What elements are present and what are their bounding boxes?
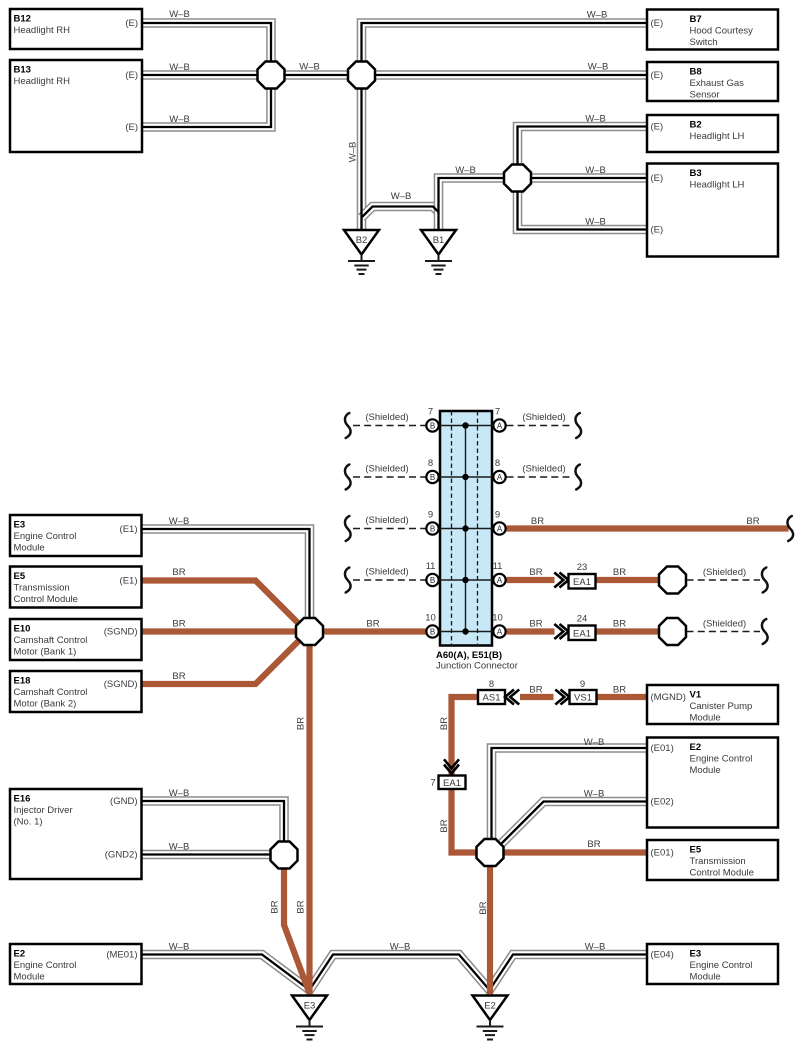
svg-text:Module: Module [14, 542, 45, 553]
svg-text:A60(A), E51(B): A60(A), E51(B) [436, 650, 502, 661]
svg-text:(No. 1): (No. 1) [14, 816, 43, 827]
svg-text:(E): (E) [651, 173, 664, 184]
wire splice J5 to ground E3 (BR) [284, 855, 309, 992]
svg-text:(E1): (E1) [120, 524, 138, 535]
wire splice J4 to E5 (E01) (BR) [490, 849, 647, 855]
svg-text:Headlight LH: Headlight LH [690, 179, 745, 190]
svg-text:W–B: W–B [169, 62, 190, 73]
wire E16 (GND2) to splice J5 (W-B) [142, 853, 285, 855]
wire shielded A7 row (shielded dashed) [507, 425, 574, 427]
svg-text:B8: B8 [690, 67, 702, 78]
junction connector pin B11 [426, 561, 439, 586]
wire pin A10 to EA1-24 (BR) [507, 628, 555, 634]
wire AS1 to VS1 (BR) [520, 694, 554, 700]
AS1 connector arrows [505, 690, 519, 705]
svg-text:BR: BR [439, 819, 450, 832]
svg-text:Canister Pump: Canister Pump [690, 701, 753, 712]
connector EA1 pin 24 [569, 626, 596, 641]
svg-text:Module: Module [690, 712, 721, 723]
svg-text:W–B: W–B [585, 942, 606, 953]
junction connector pin A11 [493, 561, 506, 586]
junction connector row 8 internal wire [434, 476, 498, 478]
wire splice S2 to B7 (E) (W-B) [362, 23, 648, 75]
svg-text:(E02): (E02) [651, 796, 674, 807]
junction connector pin B10 [425, 613, 438, 638]
wire splice S2 to B8 (E) (W-B) [362, 74, 648, 76]
svg-text:BR: BR [172, 619, 185, 630]
svg-text:VS1: VS1 [574, 693, 592, 704]
ground E2 [473, 996, 508, 1040]
svg-text:W–B: W–B [299, 62, 320, 73]
wire AS1 corner down (BR) [452, 697, 479, 776]
wire splice J1 to junction connector pin B10 (BR) [310, 628, 433, 634]
shield mark row9 right shield break mark [787, 516, 793, 541]
wire shielded B11 row (shielded dashed) [353, 579, 426, 581]
wire VS1 to V1 (MGND) (BR) [596, 694, 647, 700]
junction connector row 10 internal wire [434, 631, 498, 633]
svg-text:Camshaft Control: Camshaft Control [14, 687, 88, 698]
shield mark row11 right shield break mark [762, 568, 768, 593]
svg-text:(MGND): (MGND) [651, 692, 686, 703]
svg-text:W–B: W–B [169, 9, 190, 20]
svg-text:Injector Driver: Injector Driver [14, 805, 73, 816]
connector VS1 pin 9 [570, 690, 597, 704]
wire EA1-24 to splice J3 (BR) [596, 628, 673, 634]
wire splice S3 to B2 (E) (W-B) [518, 127, 648, 179]
wire splice S2 to ground B2 (W-B) [360, 75, 362, 230]
wire splice J4 to E2 (E01) (W-B) [492, 748, 648, 853]
svg-text:E3: E3 [14, 520, 26, 531]
svg-text:8: 8 [428, 458, 433, 469]
shield mark row11 left shield break mark [345, 568, 351, 593]
splice J2 [659, 567, 686, 594]
svg-text:EA1: EA1 [573, 577, 591, 588]
junction connector pin B8 [426, 458, 438, 483]
component B13 Headlight RH [10, 60, 142, 152]
svg-text:(Shielded): (Shielded) [522, 412, 565, 423]
wire E2 (ME01) to ground E3 to ground E2 to E3 (E04) (W-B) [142, 955, 648, 991]
svg-text:BR: BR [172, 567, 185, 578]
svg-text:7: 7 [428, 407, 433, 418]
svg-text:AS1: AS1 [483, 693, 501, 704]
svg-text:(Shielded): (Shielded) [703, 619, 746, 630]
svg-text:BR: BR [587, 839, 600, 850]
svg-text:E2: E2 [690, 742, 702, 753]
junction connector row 9 internal wire [434, 528, 498, 530]
svg-text:BR: BR [478, 901, 489, 914]
junction connector pin A10 [492, 613, 505, 638]
svg-text:W–B: W–B [588, 62, 609, 73]
svg-text:B: B [430, 421, 435, 430]
wire shielded A8 row (shielded dashed) [507, 476, 574, 478]
VS1 connector arrows [555, 690, 569, 705]
svg-text:8: 8 [495, 458, 500, 469]
svg-text:B12: B12 [14, 14, 31, 25]
junction connector row 7 internal wire [434, 425, 498, 427]
svg-text:Module: Module [690, 971, 721, 982]
shield mark row8 right shield break mark [575, 465, 581, 490]
wire splice J4 to ground E2 (BR) [487, 853, 493, 995]
junction connector A60(A), E51(B) body [440, 411, 492, 646]
svg-text:(E): (E) [651, 70, 664, 81]
svg-text:Headlight RH: Headlight RH [14, 76, 71, 87]
component B2 Headlight LH [647, 115, 778, 152]
svg-text:W–B: W–B [348, 142, 359, 163]
svg-text:B: B [430, 627, 435, 636]
shield mark row7 right shield break mark [575, 413, 581, 438]
svg-text:Sensor: Sensor [690, 89, 720, 100]
svg-text:(E1): (E1) [120, 575, 138, 586]
svg-text:BR: BR [531, 516, 544, 527]
svg-text:E16: E16 [14, 794, 31, 805]
svg-text:(E01): (E01) [651, 847, 674, 858]
svg-text:W–B: W–B [585, 217, 606, 228]
wire splice J4 to E2 (E02) (W-B) [499, 802, 647, 847]
component B3 Headlight LH [647, 164, 778, 257]
EA1-23 connector arrows [554, 573, 568, 588]
svg-text:W–B: W–B [584, 789, 605, 800]
EA1-7 connector arrows [444, 759, 459, 773]
shield mark row8 left shield break mark [345, 465, 351, 490]
svg-text:E10: E10 [14, 624, 31, 635]
svg-text:B2: B2 [356, 235, 368, 246]
wire EA1-7 to splice J4 (BR) [452, 789, 491, 853]
component E3 Engine Control Module [10, 515, 142, 556]
svg-text:A: A [497, 627, 503, 636]
wire pin A9 to shielded end (BR) [507, 525, 789, 531]
svg-text:Engine Control: Engine Control [690, 960, 753, 971]
wire E10 (SGND) to splice J1 (BR) [142, 628, 310, 634]
svg-text:Hood Courtesy: Hood Courtesy [690, 25, 754, 36]
component E18 Camshaft Control Motor Bank 2 [10, 671, 142, 712]
svg-text:(E): (E) [651, 18, 664, 29]
svg-text:Engine Control: Engine Control [14, 960, 77, 971]
component E5 Transmission Control Module right [647, 840, 778, 880]
wire B13 (E) to splice S1 (W-B) [142, 74, 271, 76]
wire EA1-23 to splice J2 (BR) [596, 577, 673, 583]
wire shielded B9 row (shielded dashed) [353, 528, 426, 530]
svg-text:B13: B13 [14, 65, 31, 76]
svg-text:W–B: W–B [169, 516, 190, 527]
svg-text:(Shielded): (Shielded) [365, 412, 408, 423]
junction connector pin B9 [426, 510, 438, 535]
component E5 Transmission Control Module [10, 567, 142, 608]
EA1-24 connector arrows [554, 624, 568, 639]
svg-text:B2: B2 [690, 120, 702, 131]
svg-text:(E): (E) [125, 18, 138, 29]
svg-text:BR: BR [613, 685, 626, 696]
wire-bundle outlines [142, 23, 648, 990]
component E2 Engine Control Module right [647, 738, 778, 828]
svg-text:A: A [497, 473, 503, 482]
svg-text:Switch: Switch [690, 37, 718, 48]
svg-text:Control Module: Control Module [14, 594, 78, 605]
svg-text:BR: BR [529, 567, 542, 578]
svg-text:BR: BR [439, 717, 450, 730]
svg-text:Module: Module [690, 765, 721, 776]
component B12 Headlight RH [10, 9, 142, 49]
shield mark row7 left shield break mark [345, 413, 351, 438]
wire shielded B7 row (shielded dashed) [353, 425, 426, 427]
svg-text:Engine Control: Engine Control [14, 531, 77, 542]
svg-text:W–B: W–B [169, 114, 190, 125]
svg-text:BR: BR [366, 619, 379, 630]
svg-text:W–B: W–B [585, 114, 606, 125]
svg-text:BR: BR [613, 619, 626, 630]
svg-text:(Shielded): (Shielded) [365, 567, 408, 578]
svg-text:Transmission: Transmission [690, 856, 746, 867]
svg-text:BR: BR [613, 567, 626, 578]
component B8 Exhaust Gas Sensor [647, 62, 778, 101]
wire B12 (E) to splice S1 (W-B) [142, 23, 271, 75]
svg-text:9: 9 [580, 679, 585, 690]
svg-text:24: 24 [577, 614, 588, 625]
wire shielded after splice J2 (shielded dashed) [687, 579, 761, 581]
svg-text:E5: E5 [14, 571, 26, 582]
splice J4 [477, 839, 504, 866]
svg-text:Control Module: Control Module [690, 867, 754, 878]
shield mark row10 right shield break mark [762, 619, 768, 644]
splice J5 [271, 842, 298, 869]
svg-text:(GND): (GND) [110, 796, 137, 807]
wire splice S1 to splice S2 (W-B) [271, 74, 362, 76]
svg-text:B1: B1 [433, 235, 445, 246]
svg-text:W–B: W–B [391, 191, 412, 202]
svg-text:Junction Connector: Junction Connector [436, 661, 518, 672]
svg-text:Exhaust Gas: Exhaust Gas [690, 78, 745, 89]
svg-text:BR: BR [172, 671, 185, 682]
svg-text:BR: BR [529, 685, 542, 696]
svg-text:7: 7 [495, 407, 500, 418]
svg-text:(SGND): (SGND) [104, 679, 138, 690]
wire E18 (SGND) to splice J1 (BR) [142, 633, 310, 684]
svg-text:BR: BR [296, 717, 307, 730]
ground E3 [292, 996, 327, 1040]
svg-text:10: 10 [492, 613, 503, 624]
splice S1 [258, 62, 285, 89]
svg-text:Camshaft Control: Camshaft Control [14, 635, 88, 646]
connector EA1 pin 23 [569, 574, 596, 589]
svg-text:E5: E5 [690, 845, 702, 856]
wire B13 (E)2 to splice S1 (W-B) [142, 75, 271, 127]
svg-text:(E): (E) [651, 121, 664, 132]
svg-text:E3: E3 [304, 1001, 316, 1012]
svg-text:7: 7 [430, 778, 435, 789]
svg-text:Motor (Bank 2): Motor (Bank 2) [14, 698, 77, 709]
svg-text:E2: E2 [14, 949, 26, 960]
svg-text:E3: E3 [690, 949, 702, 960]
svg-text:B3: B3 [690, 168, 702, 179]
svg-text:9: 9 [495, 510, 500, 521]
svg-text:BR: BR [529, 619, 542, 630]
component B7 Hood Courtesy Switch [647, 10, 778, 50]
svg-text:EA1: EA1 [573, 628, 591, 639]
svg-text:E18: E18 [14, 676, 31, 687]
svg-text:W–B: W–B [390, 942, 411, 953]
junction connector pin A9 [493, 510, 505, 535]
svg-text:W–B: W–B [169, 842, 190, 853]
svg-text:Transmission: Transmission [14, 582, 70, 593]
svg-text:9: 9 [428, 510, 433, 521]
svg-text:W–B: W–B [455, 165, 476, 176]
junction connector pin A7 [493, 407, 505, 432]
svg-text:(E04): (E04) [651, 949, 674, 960]
ground B2 [344, 230, 379, 274]
svg-text:EA1: EA1 [443, 778, 461, 789]
wire shielded after splice J3 (shielded dashed) [687, 631, 761, 633]
svg-text:(Shielded): (Shielded) [703, 567, 746, 578]
component E2 Engine Control Module left [10, 944, 142, 984]
svg-text:11: 11 [493, 561, 503, 572]
svg-text:A: A [497, 421, 503, 430]
ground B1 [421, 230, 456, 274]
svg-text:W–B: W–B [169, 942, 190, 953]
component E10 Camshaft Control Motor Bank 1 [10, 619, 142, 660]
svg-text:(E01): (E01) [651, 743, 674, 754]
component E3 Engine Control Module right [647, 944, 778, 984]
svg-text:W–B: W–B [587, 10, 608, 21]
svg-text:(Shielded): (Shielded) [365, 464, 408, 475]
svg-text:23: 23 [577, 562, 588, 573]
svg-text:(Shielded): (Shielded) [522, 464, 565, 475]
svg-text:(E): (E) [651, 224, 664, 235]
svg-text:(E): (E) [125, 122, 138, 133]
svg-text:10: 10 [425, 613, 436, 624]
svg-text:(E): (E) [125, 70, 138, 81]
connector EA1 pin 7 [439, 776, 466, 790]
svg-text:A: A [497, 576, 503, 585]
splice S2 [348, 62, 375, 89]
svg-text:W–B: W–B [169, 788, 190, 799]
connector AS1 pin 8 [478, 690, 505, 704]
svg-text:B: B [430, 473, 435, 482]
svg-text:BR: BR [746, 516, 759, 527]
wire ground B2 to ground B1 link (W-B) [362, 207, 439, 218]
component V1 Canister Pump Module [647, 685, 778, 724]
component E16 Injector Driver No.1 [10, 789, 142, 879]
svg-text:BR: BR [296, 900, 307, 913]
svg-text:BR: BR [270, 900, 281, 913]
wire splice S3 to B3 (E)2 (W-B) [518, 178, 648, 230]
splice J3 [659, 618, 686, 645]
svg-text:B7: B7 [690, 14, 702, 25]
svg-text:(ME01): (ME01) [106, 949, 137, 960]
wire pin A11 to EA1-23 (BR) [507, 577, 555, 583]
wire splice S3 to B3 (E) (W-B) [518, 177, 648, 179]
svg-text:Engine Control: Engine Control [690, 753, 753, 764]
svg-text:W–B: W–B [585, 165, 606, 176]
svg-text:11: 11 [426, 561, 436, 572]
shield mark row9 left shield break mark [345, 516, 351, 541]
junction connector pin A8 [493, 458, 505, 483]
wire shielded B8 row (shielded dashed) [353, 476, 426, 478]
svg-text:Headlight RH: Headlight RH [14, 25, 71, 36]
svg-text:W–B: W–B [584, 737, 605, 748]
wire splice J1 to ground E3 (BR) [306, 632, 312, 995]
svg-text:(SGND): (SGND) [104, 626, 138, 637]
svg-text:A: A [497, 524, 503, 533]
svg-text:(Shielded): (Shielded) [365, 515, 408, 526]
splice J1 [296, 618, 323, 645]
wire ground B1 to splice S3 (W-B) [439, 178, 518, 230]
svg-text:Headlight LH: Headlight LH [690, 131, 745, 142]
svg-text:(GND2): (GND2) [105, 849, 138, 860]
svg-text:B: B [430, 576, 435, 585]
svg-text:E2: E2 [484, 1001, 496, 1012]
svg-text:Module: Module [14, 971, 45, 982]
svg-text:V1: V1 [690, 690, 702, 701]
wire E3 (E1) to splice J1 (W-B) [142, 529, 310, 632]
svg-text:B: B [430, 524, 435, 533]
svg-text:8: 8 [489, 679, 494, 690]
junction connector pin B7 [426, 407, 438, 432]
splice S3 [504, 165, 531, 192]
junction connector row 11 internal wire [434, 579, 498, 581]
svg-text:Motor (Bank 1): Motor (Bank 1) [14, 646, 77, 657]
wire E16 (GND) to splice J5 (W-B) [142, 801, 285, 855]
wire E5 (E1) to splice J1 (BR) [142, 581, 310, 632]
